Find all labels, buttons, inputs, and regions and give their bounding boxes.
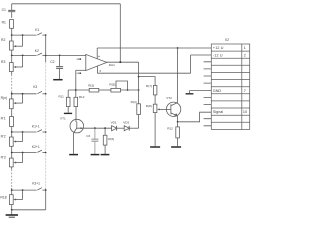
wire bottom return to bus [12, 209, 46, 211]
ground under R(6) [101, 154, 110, 156]
wire inverting input drop [75, 70, 77, 97]
svg-text:R(n): R(n) [1, 96, 8, 100]
potentiometer R(8) [153, 104, 157, 112]
wire [154, 113, 156, 147]
resistor R12 [177, 122, 179, 127]
switch K1+1 [37, 130, 42, 132]
ground under C2 [53, 79, 62, 81]
node row 4 [12, 131, 37, 133]
svg-text:R12: R12 [167, 126, 173, 130]
node row 2 [12, 54, 37, 56]
wire op-amp V- pin drop [96, 66, 98, 73]
wire +12V rail [97, 47, 211, 49]
wire dashed chain segment 2 [11, 167, 13, 169]
wire node row right [121, 89, 139, 91]
svg-text:K3: K3 [33, 85, 37, 89]
transistor VT2 [166, 102, 180, 116]
wire signal out to connector [178, 112, 212, 122]
potentiometer R'2 [10, 137, 14, 146]
svg-text:R12: R12 [79, 95, 85, 99]
svg-text:K2+1: K2+1 [32, 145, 40, 149]
potentiometer R4 [10, 99, 14, 109]
svg-text:C3: C3 [86, 134, 90, 138]
node row 3 [12, 93, 37, 95]
diode VD2 [124, 126, 129, 131]
svg-text:R(7): R(7) [146, 84, 152, 88]
wire output vertical [138, 62, 140, 104]
svg-text:2: 2 [244, 53, 246, 57]
ground chain bottom [11, 210, 13, 215]
potentiometer R2 [10, 41, 14, 50]
ground under VT1 [69, 154, 78, 156]
node row 6 [12, 189, 37, 191]
svg-text:+12 U: +12 U [213, 46, 224, 50]
svg-text:VD2: VD2 [123, 120, 129, 124]
resistor R(6) [104, 127, 106, 129]
svg-text:K1+1: K1+1 [32, 125, 40, 129]
wiper of R(5) [116, 81, 128, 90]
switch K1 [37, 33, 42, 35]
wire VT2 collector to +12 [177, 48, 179, 103]
svg-text:K3+1: K3+1 [32, 182, 40, 186]
wire VT2 emitter down [177, 116, 179, 122]
wire top feedback rail [12, 3, 121, 5]
wire [11, 28, 13, 35]
svg-text:VT1: VT1 [60, 117, 66, 121]
potentiometer R'3 [10, 158, 14, 167]
svg-text:VT2: VT2 [166, 96, 172, 100]
bus line [45, 35, 47, 62]
wire dashed chain segment [11, 72, 13, 75]
ground under R(8) divider [150, 146, 160, 148]
svg-text:R(3): R(3) [88, 83, 94, 87]
resistor R11 [67, 90, 69, 97]
svg-text:R(8): R(8) [146, 104, 152, 108]
switch K2 [37, 53, 42, 55]
wire top rail drop to output [119, 4, 121, 62]
potentiometer R3 [10, 63, 14, 72]
svg-text:R1: R1 [2, 20, 6, 24]
resistor R'1 [10, 117, 14, 127]
potentiometer R18 [10, 195, 14, 205]
wire -12V rail [97, 72, 190, 74]
svg-text:R(6): R(6) [108, 137, 114, 141]
svg-text:R11: R11 [59, 95, 65, 99]
svg-text:10: 10 [243, 110, 247, 114]
svg-text:C1: C1 [2, 8, 6, 12]
capacitor C1 [11, 4, 13, 10]
node row 1 [12, 34, 37, 36]
ground under R12 [171, 146, 181, 148]
svg-text:R(5): R(5) [109, 83, 115, 87]
wiper of R(8) to VT2 base [159, 108, 171, 110]
node row 5 [12, 152, 37, 154]
resistor R(7) [153, 85, 157, 95]
wire [99, 89, 111, 91]
switch K3 [37, 91, 42, 93]
svg-text:R'2: R'2 [1, 134, 6, 138]
connector pin stubs [204, 62, 212, 126]
resistor R12b [74, 97, 78, 106]
switch K3+1 [37, 188, 42, 190]
svg-text:-12 U: -12 U [213, 53, 223, 57]
svg-text:X2: X2 [225, 38, 229, 42]
wire feed to R(7) [139, 77, 156, 86]
svg-text:R2: R2 [1, 38, 5, 42]
capacitor C3 [94, 127, 96, 129]
wire [138, 115, 140, 129]
ground under R11 [64, 112, 72, 114]
svg-text:1: 1 [244, 46, 246, 50]
resistor R1 [10, 20, 14, 29]
svg-text:R3: R3 [1, 60, 5, 64]
svg-text:R18: R18 [0, 195, 6, 199]
resistor R(3) [89, 88, 99, 92]
svg-text:Signal: Signal [213, 110, 223, 114]
svg-text:DA1: DA1 [109, 63, 115, 67]
ground GND pin bar [186, 93, 194, 95]
wire chain bottom [11, 205, 13, 210]
ground under C3 [91, 154, 100, 156]
svg-text:VD1: VD1 [111, 120, 117, 124]
svg-text:R(4): R(4) [131, 100, 137, 104]
wire VT1 emitter down [73, 133, 75, 154]
wire op-amp V+ pin riser [96, 48, 98, 59]
wire GND pin [190, 90, 212, 92]
diode VD1 [112, 126, 117, 131]
wire [154, 95, 156, 104]
switch K2+1 [37, 150, 42, 152]
resistor R(4) [137, 104, 141, 115]
capacitor C2 [59, 55, 61, 66]
svg-text:R'3: R'3 [1, 155, 6, 159]
op-amp U1 [86, 54, 107, 70]
svg-text:K1: K1 [35, 28, 39, 32]
potentiometer R(5) [111, 88, 121, 92]
svg-text:K2: K2 [35, 49, 39, 53]
svg-text:C2: C2 [50, 60, 54, 64]
svg-text:7: 7 [244, 89, 246, 93]
node feedback row [68, 89, 89, 91]
wire signal line to op-amp [46, 54, 86, 56]
svg-text:GND: GND [213, 89, 222, 93]
transistor VT1 [70, 119, 84, 133]
wire op-amp output [107, 61, 139, 63]
svg-text:R'1: R'1 [1, 116, 6, 120]
